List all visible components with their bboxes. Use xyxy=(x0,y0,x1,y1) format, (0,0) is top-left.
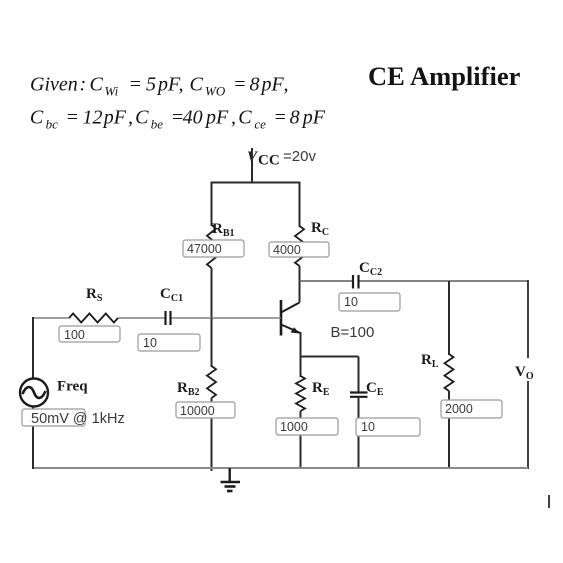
resistor RS xyxy=(69,286,118,323)
wire RL top xyxy=(448,281,450,355)
resistor RB1 xyxy=(207,221,235,268)
value box source 50mV xyxy=(22,409,125,427)
wire RC to collector xyxy=(299,266,301,303)
value box CE 10 xyxy=(356,418,420,436)
wire RL bottom xyxy=(448,391,450,469)
value box CC2 10 xyxy=(339,293,400,311)
svg-text:2000: 2000 xyxy=(445,402,473,416)
capacitor CC2 xyxy=(353,260,382,289)
wire RB1 branch top xyxy=(211,182,213,227)
ground xyxy=(221,468,241,491)
value box RL 2000 xyxy=(441,400,502,418)
svg-text:10: 10 xyxy=(143,336,157,350)
svg-text:=20v: =20v xyxy=(283,148,316,165)
resistor RC xyxy=(295,220,329,266)
wire VCC stub xyxy=(251,148,253,183)
value box RC 4000 xyxy=(269,242,329,257)
svg-text:Given:CWi=5pF,CWO=8pF,: Given:CWi=5pF,CWO=8pF, xyxy=(30,74,289,99)
given-text line 1 xyxy=(30,74,289,99)
svg-text:100: 100 xyxy=(64,328,85,342)
wire collector output xyxy=(300,280,529,282)
svg-text:10: 10 xyxy=(344,295,358,309)
wire left source top xyxy=(32,317,34,379)
wire RB2 bottom xyxy=(211,398,213,471)
svg-text:Freq: Freq xyxy=(57,379,88,395)
wire left source bottom xyxy=(32,407,34,470)
svg-text:CC: CC xyxy=(258,153,280,169)
wire top bus xyxy=(211,182,301,184)
svg-text:47000: 47000 xyxy=(187,242,222,256)
value box RS 100 xyxy=(59,326,120,342)
transistor Q1 xyxy=(281,300,374,341)
capacitor CC1 xyxy=(160,286,183,325)
svg-text:4000: 4000 xyxy=(273,243,301,257)
wire right output upper xyxy=(527,280,529,358)
wire bottom bus xyxy=(32,467,528,469)
resistor RB2 xyxy=(177,366,216,398)
wire RE bottom xyxy=(300,411,302,469)
value box RB1 47000 xyxy=(183,240,244,257)
value box RE 1000 xyxy=(276,418,338,435)
title CE Amplifier xyxy=(368,61,521,91)
wire CE top xyxy=(358,357,360,393)
value box CC1 10 xyxy=(138,334,200,351)
svg-text:10: 10 xyxy=(361,420,375,434)
value box RB2 10000 xyxy=(176,402,235,418)
svg-text:CE Amplifier: CE Amplifier xyxy=(368,61,521,91)
wire RB1 to base node xyxy=(211,268,213,319)
capacitor CE xyxy=(350,380,384,398)
wire RE top handled above; resistor RE xyxy=(296,376,330,411)
wire emitter down xyxy=(300,332,302,377)
wire CE bottom xyxy=(358,397,360,469)
svg-text:50mV @ 1kHz: 50mV @ 1kHz xyxy=(31,411,125,427)
node VO label xyxy=(515,364,534,382)
wire RC branch top xyxy=(299,182,301,228)
wire RB2 top xyxy=(211,318,213,367)
svg-text:1000: 1000 xyxy=(280,420,308,434)
given-text line 2 xyxy=(30,107,326,132)
svg-text:10000: 10000 xyxy=(180,404,215,418)
wire emitter node to CE xyxy=(301,356,359,358)
wire right output lower xyxy=(527,381,529,469)
cursor mark xyxy=(548,495,550,508)
resistor RL xyxy=(421,352,454,391)
node VCC label xyxy=(247,148,316,169)
source V1 Freq xyxy=(20,379,88,407)
wire main input (base) xyxy=(33,317,281,319)
svg-text:Cbc=12pF,Cbe=40pF,Cce=8pF: Cbc=12pF,Cbe=40pF,Cce=8pF xyxy=(30,107,326,132)
svg-text:B=100: B=100 xyxy=(331,324,375,341)
